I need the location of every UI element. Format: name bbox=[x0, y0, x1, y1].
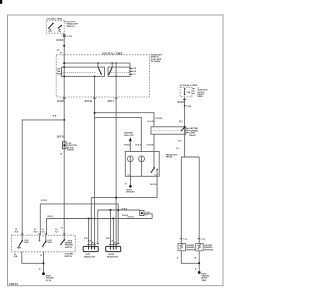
svg-text:HEADLIGHT: HEADLIGHT bbox=[84, 256, 96, 259]
svg-text:16 R-B: 16 R-B bbox=[57, 137, 64, 139]
svg-text:16 W-R: 16 W-R bbox=[177, 102, 185, 104]
svg-text:RUN. SYS.: RUN. SYS. bbox=[124, 135, 134, 137]
svg-text:R-G: R-G bbox=[42, 232, 46, 234]
svg-text:C-76: C-76 bbox=[201, 239, 205, 241]
svg-text:OF DASH): OF DASH) bbox=[151, 60, 161, 63]
svg-text:GROUND: GROUND bbox=[126, 192, 135, 194]
svg-text:J/C: J/C bbox=[57, 50, 61, 52]
svg-text:SWITCH: SWITCH bbox=[64, 256, 72, 258]
svg-text:SIDE): SIDE) bbox=[202, 280, 207, 282]
svg-text:16 R-B: 16 R-B bbox=[57, 101, 64, 103]
svg-text:16 R-Y: 16 R-Y bbox=[107, 101, 114, 103]
svg-text:C-1: C-1 bbox=[128, 175, 131, 177]
svg-text:R-Y: R-Y bbox=[179, 122, 183, 124]
svg-text:SWITCH: SWITCH bbox=[66, 26, 74, 28]
svg-text:16 R-G: 16 R-G bbox=[135, 145, 142, 147]
svg-text:HIGH: HIGH bbox=[24, 242, 29, 244]
svg-text:16 R-W: 16 R-W bbox=[155, 118, 162, 120]
svg-text:HEADLIGHT: HEADLIGHT bbox=[107, 256, 119, 259]
svg-text:16 R-W: 16 R-W bbox=[150, 184, 157, 186]
svg-text:(DASH): (DASH) bbox=[67, 149, 74, 152]
svg-text:RELAY: RELAY bbox=[166, 156, 173, 159]
svg-text:HEAD: HEAD bbox=[57, 73, 63, 76]
svg-text:16 R-G: 16 R-G bbox=[121, 209, 127, 211]
svg-text:SWITCH: SWITCH bbox=[65, 247, 73, 249]
svg-text:16 R-W: 16 R-W bbox=[84, 101, 92, 103]
svg-text:C-75: C-75 bbox=[183, 239, 187, 241]
svg-text:18 R-B: 18 R-B bbox=[56, 40, 63, 42]
svg-text:RESISTOR: RESISTOR bbox=[186, 249, 196, 251]
svg-text:R-B: R-B bbox=[53, 116, 57, 118]
svg-text:16 R-G: 16 R-G bbox=[127, 217, 134, 219]
svg-text:16 R-W: 16 R-W bbox=[41, 200, 47, 202]
svg-text:SIDE): SIDE) bbox=[198, 96, 203, 98]
svg-text:15A: 15A bbox=[187, 91, 191, 94]
svg-text:129-51: 129-51 bbox=[9, 282, 18, 286]
svg-text:16 G-W: 16 G-W bbox=[147, 121, 154, 123]
svg-text:16 R-G: 16 R-G bbox=[47, 216, 53, 218]
svg-text:16 R-W: 16 R-W bbox=[146, 145, 153, 147]
svg-text:RELAY: RELAY bbox=[189, 134, 196, 137]
svg-text:HOT AT ALL TIMES: HOT AT ALL TIMES bbox=[180, 84, 198, 87]
svg-text:C-2: C-2 bbox=[154, 175, 157, 177]
svg-text:16: 16 bbox=[61, 227, 63, 229]
svg-text:(G-14): (G-14) bbox=[46, 279, 52, 282]
svg-text:HIGH: HIGH bbox=[47, 242, 52, 244]
svg-text:16 R-W: 16 R-W bbox=[124, 145, 131, 147]
svg-text:RESISTOR: RESISTOR bbox=[204, 249, 214, 251]
svg-text:R-W: R-W bbox=[34, 232, 38, 234]
svg-text:C-110: C-110 bbox=[67, 36, 73, 38]
